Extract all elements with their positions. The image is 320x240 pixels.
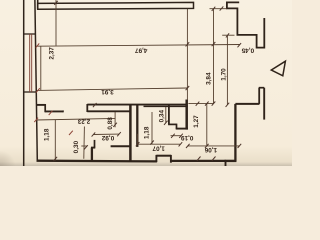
svg-text:3,91: 3,91 bbox=[101, 88, 114, 95]
svg-text:1,06: 1,06 bbox=[204, 146, 217, 153]
svg-text:2,23: 2,23 bbox=[77, 118, 90, 125]
svg-text:0,92: 0,92 bbox=[101, 134, 114, 141]
svg-text:4,97: 4,97 bbox=[135, 47, 148, 54]
svg-text:1,18: 1,18 bbox=[143, 126, 150, 139]
svg-text:3,84: 3,84 bbox=[205, 72, 212, 85]
svg-text:0,34: 0,34 bbox=[159, 110, 166, 123]
svg-text:0,88: 0,88 bbox=[107, 117, 114, 130]
svg-text:2,37: 2,37 bbox=[49, 47, 56, 60]
svg-text:1,18: 1,18 bbox=[43, 128, 50, 141]
svg-text:1,70: 1,70 bbox=[220, 68, 227, 81]
svg-text:1,27: 1,27 bbox=[193, 115, 200, 128]
svg-text:0,19: 0,19 bbox=[181, 134, 194, 141]
svg-text:1,07: 1,07 bbox=[152, 145, 165, 152]
svg-text:0,30: 0,30 bbox=[73, 140, 80, 153]
svg-text:0,45: 0,45 bbox=[241, 46, 254, 53]
